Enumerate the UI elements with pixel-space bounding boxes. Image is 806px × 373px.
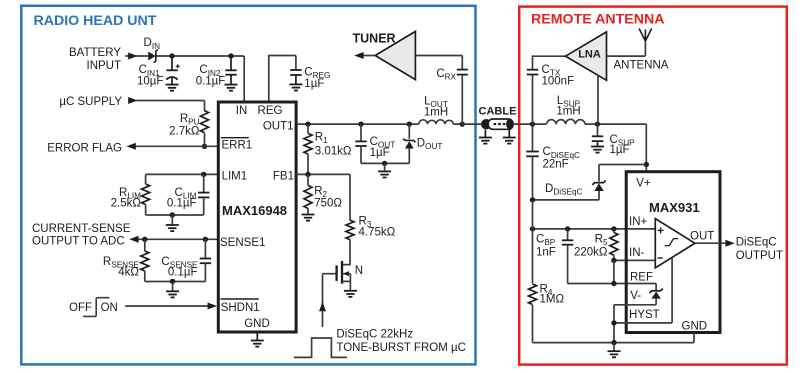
- node junction CSENSE top: [203, 237, 208, 242]
- svg-text:0.1µF: 0.1µF: [196, 76, 226, 88]
- wire remote ground rail: [533, 333, 695, 343]
- ground CIN2: [225, 85, 238, 91]
- svg-text:REF: REF: [630, 272, 653, 284]
- tone-burst pulse symbol: [294, 338, 347, 357]
- capacitor CSUP 1uF: [597, 124, 599, 136]
- svg-text:HYST: HYST: [629, 309, 660, 321]
- svg-text:1nF: 1nF: [536, 246, 556, 258]
- wire DIN cathode to IN riser: [157, 56, 245, 101]
- wire tuner output: [363, 55, 376, 57]
- node junction COUT top: [358, 121, 363, 126]
- svg-text:TUNER: TUNER: [353, 31, 396, 45]
- svg-text:750Ω: 750Ω: [314, 197, 342, 209]
- arrow tuner output (points left): [354, 52, 363, 59]
- resistor R4 1M: [532, 200, 534, 284]
- wire LNA supply feed: [597, 75, 599, 124]
- resistor R1 3.01k: [307, 124, 309, 133]
- ground LIM network: [166, 225, 179, 231]
- wire R5 bottom to REF row: [613, 260, 615, 283]
- node junction V+ rail / DDiSEqC: [644, 162, 649, 167]
- comparator plus input mark: [658, 227, 664, 233]
- ground CSUP: [591, 147, 604, 153]
- diode DDiSEqC (zener): [592, 181, 605, 185]
- inductor LOUT 1mH: [419, 120, 454, 124]
- arrow uC supply flow: [128, 97, 137, 104]
- svg-text:REG: REG: [258, 105, 283, 117]
- node junction CIN2: [228, 53, 233, 58]
- ground R2: [302, 215, 315, 221]
- svg-text:BATTERY: BATTERY: [69, 47, 121, 59]
- svg-text:N: N: [355, 265, 363, 277]
- svg-text:1µF: 1µF: [610, 144, 630, 156]
- resistor RSENSE 4k: [144, 239, 146, 251]
- antenna symbol: [639, 29, 652, 42]
- comparator hysteresis mark: [665, 239, 678, 246]
- wire LIM network bottom: [146, 214, 204, 216]
- node junction CIN1: [169, 53, 174, 58]
- node junction COUT ground: [382, 161, 387, 166]
- svg-text:µC SUPPLY: µC SUPPLY: [59, 96, 122, 108]
- svg-text:RADIO HEAD UNT: RADIO HEAD UNT: [34, 13, 157, 29]
- ground SENSE network: [166, 291, 179, 297]
- node junction column/IN+: [530, 226, 535, 231]
- wire SENSE network bottom: [145, 281, 206, 283]
- wire antenna to LNA input: [607, 41, 646, 56]
- svg-text:TONE-BURST FROM µC: TONE-BURST FROM µC: [336, 342, 466, 354]
- arrow battery input flow: [128, 53, 137, 60]
- svg-text:IN-: IN-: [629, 247, 645, 259]
- svg-text:2.7kΩ: 2.7kΩ: [169, 126, 200, 138]
- node junction CBP top: [565, 226, 570, 231]
- node junction RPU/ERR1: [202, 144, 207, 149]
- svg-text:2.5kΩ: 2.5kΩ: [111, 198, 142, 210]
- wire rail to cable: [462, 123, 481, 125]
- svg-text:REMOTE ANTENNA: REMOTE ANTENNA: [531, 11, 664, 27]
- svg-text:GND: GND: [682, 321, 708, 333]
- svg-text:CURRENT-SENSE: CURRENT-SENSE: [32, 223, 131, 235]
- ground MAX16948 GND: [251, 341, 264, 347]
- svg-text:1µF: 1µF: [304, 78, 324, 90]
- node junction CLIM top: [201, 172, 206, 177]
- svg-text:V+: V+: [636, 178, 651, 190]
- node junction ground rail: [611, 340, 616, 345]
- svg-text:V-: V-: [630, 290, 641, 302]
- wire GND pin stem: [256, 334, 258, 341]
- svg-text:1mH: 1mH: [556, 106, 580, 118]
- node junction R1/R2/FB1: [305, 172, 310, 177]
- arrow ERROR FLAG (points left): [126, 143, 135, 150]
- ground cable left: [479, 138, 492, 144]
- svg-text:100nF: 100nF: [542, 76, 575, 88]
- op-amp tuner amplifier: [375, 31, 415, 79]
- radio head unit frame (blue): [21, 6, 475, 365]
- svg-text:OUT: OUT: [690, 230, 714, 242]
- svg-text:OUT1: OUT1: [263, 121, 294, 133]
- capacitor CSENSE 0.1uF: [204, 239, 206, 258]
- ground remote rail: [613, 343, 615, 352]
- node junction LIM ground: [170, 212, 175, 217]
- resistor R3 4.75k: [346, 220, 354, 239]
- diode DIN (schottky): [148, 52, 156, 61]
- wire OUT1 rail: [296, 123, 462, 125]
- wire DDiSEqC anode to input node: [533, 199, 600, 201]
- node junction REF: [611, 281, 616, 286]
- node junction SENSE ground: [170, 279, 175, 284]
- wire REF row: [568, 283, 657, 285]
- wire V- row to outside: [614, 305, 656, 343]
- wire COUT/DOUT bottom: [361, 162, 409, 164]
- svg-text:IN: IN: [236, 105, 248, 117]
- wire battery input: [125, 55, 148, 57]
- ground cable right: [503, 138, 516, 144]
- capacitor CBP 1nF: [567, 229, 569, 240]
- svg-text:4.75kΩ: 4.75kΩ: [359, 226, 396, 238]
- svg-text:OUTPUT: OUTPUT: [736, 250, 783, 262]
- svg-text:ERR1: ERR1: [222, 139, 253, 151]
- wire DDiSEqC to V+ rail: [599, 165, 646, 182]
- ground CREG: [289, 84, 302, 90]
- svg-text:LIM1: LIM1: [222, 170, 248, 182]
- cable connector symbol: [481, 119, 491, 129]
- svg-text:CABLE: CABLE: [479, 106, 517, 118]
- svg-text:DiSEqC 22kHz: DiSEqC 22kHz: [336, 328, 413, 340]
- svg-text:3.01kΩ: 3.01kΩ: [315, 145, 352, 157]
- node junction RSENSE top: [142, 237, 147, 242]
- svg-text:ERROR FLAG: ERROR FLAG: [47, 143, 122, 155]
- remote antenna frame (red): [519, 7, 787, 365]
- resistor RPU 2.7k: [201, 111, 209, 133]
- node junction DDiSEqC/input column: [530, 197, 535, 202]
- capacitor CLIM 0.1uF: [203, 174, 205, 192]
- ground COUT/DOUT: [378, 171, 391, 177]
- node junction CRX bottom: [460, 121, 465, 126]
- wire HYST row: [614, 258, 672, 323]
- wire cable to remote rail: [513, 124, 646, 170]
- resistor R5 220k: [613, 229, 615, 233]
- ground CIN1: [166, 85, 179, 91]
- transistor N (NMOS): [342, 240, 350, 265]
- capacitor COUT 1uF: [360, 124, 362, 141]
- svg-text:ON: ON: [101, 302, 118, 314]
- node junction CSUP/LNA: [595, 121, 600, 126]
- svg-text:0.1µF: 0.1µF: [168, 266, 198, 278]
- comparator minus input mark: [658, 257, 663, 259]
- diode DOUT (zener clamp): [408, 124, 410, 139]
- wire SENSE1 row: [137, 238, 218, 240]
- svg-text:MAX931: MAX931: [649, 200, 700, 215]
- svg-text:IN+: IN+: [629, 216, 648, 228]
- diode internal zener (V- clamp): [649, 289, 662, 293]
- inductor LSUP 1mH: [547, 119, 586, 124]
- wire FB1 row: [296, 174, 350, 220]
- wire LIM1 row: [146, 173, 217, 175]
- wire uC supply to RPU: [137, 101, 205, 111]
- svg-text:SHDN1: SHDN1: [221, 302, 260, 314]
- ground NMOS source: [344, 291, 357, 297]
- wire IN+ row: [533, 228, 656, 230]
- comparator triangle: [655, 219, 695, 268]
- svg-text:GND: GND: [244, 318, 270, 330]
- resistor RLIM 2.5k: [145, 174, 147, 184]
- svg-text:MAX16948: MAX16948: [222, 203, 287, 218]
- capacitor CIN2 0.1uF: [230, 56, 232, 70]
- arrow DiSEqC output: [725, 240, 734, 247]
- svg-text:1MΩ: 1MΩ: [540, 294, 565, 306]
- node junction R5 bottom/IN-: [611, 258, 616, 263]
- svg-text:22nF: 22nF: [543, 158, 569, 170]
- resistor R2 750: [307, 174, 309, 185]
- svg-text:10µF: 10µF: [137, 76, 163, 88]
- node junction R1 top: [305, 121, 310, 126]
- svg-text:OUTPUT TO ADC: OUTPUT TO ADC: [32, 235, 125, 247]
- capacitor CRX: [457, 70, 468, 75]
- wire cable shield grounds: [485, 130, 509, 138]
- node junction DOUT top: [407, 121, 412, 126]
- node junction V-/HYST: [611, 320, 616, 325]
- wire gate drive with arrow: [322, 274, 324, 327]
- op-amp U2 MAX931 body: [626, 172, 720, 333]
- svg-text:1mH: 1mH: [424, 107, 448, 119]
- wire IN- row: [614, 259, 655, 261]
- svg-text:OFF: OFF: [69, 302, 92, 314]
- wire REF to internal zener: [655, 284, 657, 291]
- capacitor CTX 100nF: [533, 56, 566, 124]
- node junction R5 top: [611, 226, 616, 231]
- arrow into SHDN1: [208, 303, 217, 310]
- svg-text:SENSE1: SENSE1: [220, 237, 265, 249]
- wire REG pin to CREG: [269, 56, 296, 101]
- svg-text:LNA: LNA: [578, 48, 601, 60]
- svg-text:DiSEqC: DiSEqC: [736, 236, 777, 248]
- capacitor CREG 1uF: [290, 70, 301, 75]
- wire RPU bottom to ERR1 wire: [204, 133, 206, 147]
- svg-text:FB1: FB1: [273, 170, 294, 182]
- wire comparator output: [695, 242, 727, 244]
- svg-text:ANTENNA: ANTENNA: [614, 60, 669, 72]
- wire tuner input to CRX: [415, 56, 462, 70]
- op-amp U1 MAX16948 body: [218, 102, 296, 332]
- node junction CTX/CDiSEqC column: [530, 121, 535, 126]
- op-amp LNA amplifier: [566, 32, 607, 80]
- svg-text:4kΩ: 4kΩ: [118, 266, 139, 278]
- wire OFF/ON to SHDN1: [125, 305, 209, 307]
- capacitor CIN1 10uF (polarized): [171, 56, 173, 70]
- svg-text:220kΩ: 220kΩ: [574, 246, 608, 258]
- svg-text:INPUT: INPUT: [87, 60, 122, 72]
- arrow current-sense output (points left): [129, 236, 138, 243]
- wire ERR1 to error flag arrow: [134, 145, 218, 147]
- svg-text:0.1µF: 0.1µF: [167, 198, 197, 210]
- svg-text:1µF: 1µF: [370, 147, 390, 159]
- capacitor CDiSEqC 22nF: [532, 124, 534, 151]
